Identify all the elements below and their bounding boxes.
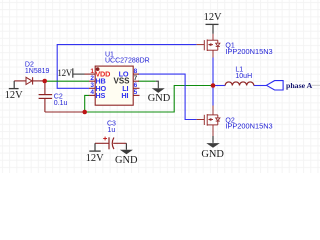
svg-text:GND: GND — [115, 155, 138, 166]
svg-text:phase A: phase A — [286, 81, 313, 90]
svg-text:1N5819: 1N5819 — [25, 68, 50, 75]
svg-text:IPP200N15N3: IPP200N15N3 — [225, 122, 272, 131]
svg-text:0.1u: 0.1u — [54, 100, 68, 107]
svg-text:12V: 12V — [5, 90, 23, 101]
svg-text:UCC27288DR: UCC27288DR — [105, 58, 150, 65]
svg-text:HS: HS — [95, 91, 105, 100]
svg-text:4: 4 — [90, 89, 94, 96]
svg-text:2: 2 — [90, 75, 94, 82]
svg-text:3: 3 — [90, 82, 94, 89]
svg-text:5: 5 — [134, 89, 138, 96]
svg-text:1u: 1u — [108, 127, 116, 134]
svg-text:12V: 12V — [57, 68, 72, 78]
svg-text:7: 7 — [134, 75, 138, 82]
svg-text:12V: 12V — [204, 12, 222, 23]
svg-text:1: 1 — [90, 68, 94, 75]
svg-text:IPP200N15N3: IPP200N15N3 — [225, 47, 272, 56]
svg-text:10uH: 10uH — [235, 73, 252, 80]
svg-text:GND: GND — [201, 149, 224, 160]
svg-text:8: 8 — [134, 68, 138, 75]
svg-text:GND: GND — [148, 93, 171, 104]
svg-text:6: 6 — [134, 82, 138, 89]
svg-text:HI: HI — [121, 91, 128, 100]
svg-text:12V: 12V — [86, 153, 104, 164]
